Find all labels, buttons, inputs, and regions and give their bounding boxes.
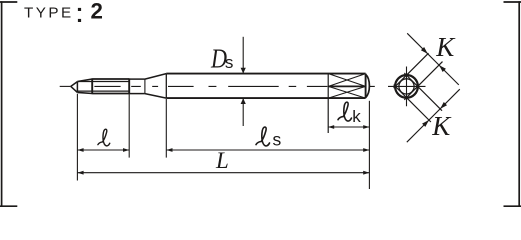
extension line thread end (l right) xyxy=(128,94,130,157)
thread root top line xyxy=(77,81,129,83)
border top-left stub xyxy=(0,1,17,3)
K upper dimension line xyxy=(407,33,459,85)
centerline dashes xyxy=(94,85,374,87)
thread crest bottom line xyxy=(92,93,129,95)
shank top line xyxy=(166,73,365,75)
end view square SW face xyxy=(394,85,431,122)
border bottom-right stub xyxy=(504,205,521,207)
label lk xyxy=(338,102,352,121)
label colon xyxy=(78,8,81,11)
label l (thread length) xyxy=(98,129,110,146)
thread crest top line xyxy=(92,78,129,80)
shank start vertical xyxy=(165,74,167,99)
border top-right stub xyxy=(504,1,521,3)
dimension line ls xyxy=(166,149,369,151)
svg-text:L: L xyxy=(215,148,229,173)
label ls xyxy=(256,127,270,146)
end view square NW face xyxy=(394,53,429,88)
chamfer top slope xyxy=(77,79,92,82)
border right vertical xyxy=(518,1,520,207)
square section right vertical xyxy=(365,74,367,99)
svg-text:TYPE: TYPE xyxy=(24,4,74,21)
taper start vertical xyxy=(144,79,146,94)
neck bottom line xyxy=(129,93,145,95)
end view inner circle xyxy=(399,79,414,94)
svg-text:K: K xyxy=(431,111,452,141)
square section left vertical + lk extension line xyxy=(327,74,329,133)
border bottom-left stub xyxy=(0,205,17,207)
end view square SE face xyxy=(404,62,442,100)
shank end cap xyxy=(366,74,370,97)
dimension line l xyxy=(77,149,129,151)
taper top slope xyxy=(145,74,166,80)
extension line tip (l and L left) xyxy=(76,94,78,181)
square section middle horizontal xyxy=(328,85,365,87)
extension line overall right (lk, ls, L right) xyxy=(368,101,370,189)
svg-text:k: k xyxy=(352,107,361,126)
dimension line lk xyxy=(328,126,369,128)
neck top line xyxy=(129,78,145,80)
Ds dimension arrow top xyxy=(242,37,244,73)
square section cross diagonals xyxy=(328,74,365,99)
svg-text:2: 2 xyxy=(91,0,103,24)
K lower dimension line xyxy=(407,89,460,142)
dimension line L xyxy=(77,172,369,174)
thread root bottom line xyxy=(77,90,129,92)
tip vertical (web) xyxy=(76,82,78,93)
end view square NE face xyxy=(404,73,442,111)
shank bottom line xyxy=(166,97,365,99)
taper bottom slope xyxy=(145,94,166,99)
chamfer bottom slope xyxy=(77,92,92,93)
svg-text:K: K xyxy=(435,32,456,62)
svg-text:s: s xyxy=(273,130,282,150)
tap point cone xyxy=(71,82,78,93)
end view crosshair xyxy=(388,67,426,107)
chamfer end vertical xyxy=(91,78,93,94)
Ds dimension arrow bottom xyxy=(242,99,244,126)
centerline left stub xyxy=(60,85,71,87)
thread end vertical xyxy=(128,78,130,94)
svg-text:s: s xyxy=(225,53,234,72)
end view outer circle xyxy=(395,75,418,98)
border left vertical xyxy=(1,1,3,207)
extension line shank start (ls left) xyxy=(165,99,167,158)
